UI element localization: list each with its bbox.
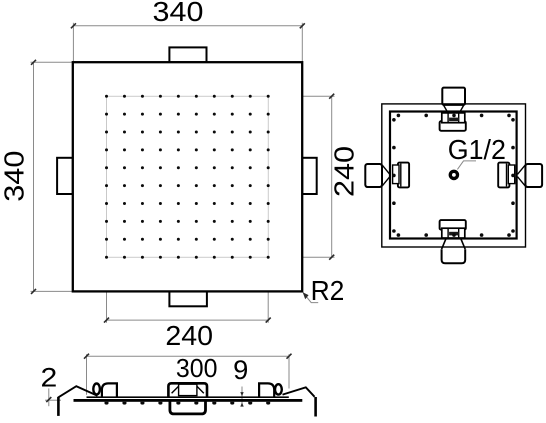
nozzle dots 10x10 xyxy=(105,95,270,259)
center clip xyxy=(168,383,207,397)
dim line 340 left xyxy=(33,62,35,291)
svg-text:9: 9 xyxy=(233,355,248,385)
left side clip xyxy=(102,383,117,396)
top bracket xyxy=(440,121,466,131)
dim 9 arrows xyxy=(240,392,243,396)
svg-text:300: 300 xyxy=(176,353,218,383)
extension line bottom-right xyxy=(267,257,269,323)
extension line left-bottom xyxy=(31,290,73,292)
extension line bottom-left xyxy=(106,257,108,323)
right funnel xyxy=(518,165,526,186)
svg-text:240: 240 xyxy=(165,320,213,351)
faceplate square xyxy=(73,62,302,291)
water inlet U xyxy=(170,401,206,414)
right flange slope xyxy=(283,387,315,397)
right side clip xyxy=(259,383,274,396)
right bracket xyxy=(498,163,509,188)
G1/2 inlet xyxy=(450,171,457,178)
dim line 240 right xyxy=(331,96,333,257)
svg-text:240: 240 xyxy=(328,146,359,197)
left clip roll xyxy=(93,384,100,395)
top tab xyxy=(169,47,206,62)
leader arrow R2 xyxy=(303,292,309,299)
leader G1/2 xyxy=(457,161,476,170)
svg-text:G1/2: G1/2 xyxy=(448,134,506,165)
right tab xyxy=(302,158,317,194)
bottom bracket xyxy=(440,220,466,230)
right clip roll xyxy=(275,384,282,394)
extension line top-right xyxy=(301,23,303,62)
left flange slope xyxy=(58,386,97,397)
screw dots ring xyxy=(392,114,515,237)
nozzle field border inside xyxy=(107,96,269,257)
svg-text:R2: R2 xyxy=(311,275,345,306)
right flange stub xyxy=(314,397,317,417)
left funnel xyxy=(382,165,390,186)
dim line 300 xyxy=(45,354,289,406)
trim plate xyxy=(87,396,289,398)
extension line top-left xyxy=(72,23,74,62)
extension line right-top xyxy=(268,95,334,97)
right clip body xyxy=(525,164,542,187)
bottom tab xyxy=(169,291,207,306)
bottom flask xyxy=(442,249,466,263)
svg-text:2: 2 xyxy=(41,363,58,393)
dim line 240 bottom xyxy=(107,319,269,321)
dim 9 line xyxy=(241,387,243,406)
top funnel xyxy=(443,105,464,112)
dim line 340 top xyxy=(73,25,302,27)
left clip body xyxy=(365,164,382,187)
face plate xyxy=(74,399,303,402)
nozzle bumps xyxy=(105,402,271,405)
back inner plate xyxy=(390,112,517,239)
extension line left-top xyxy=(31,61,73,63)
back outer plate xyxy=(382,104,526,247)
dimension ticks front view xyxy=(31,23,334,322)
svg-text:340: 340 xyxy=(153,0,204,27)
left bracket xyxy=(398,163,409,188)
left tab xyxy=(57,158,73,194)
dim 2 lines xyxy=(48,388,50,406)
top mounting tab xyxy=(442,88,465,105)
svg-text:340: 340 xyxy=(0,151,30,202)
bottom flask neck xyxy=(442,239,466,249)
leader R2 xyxy=(303,293,318,303)
left flange stub xyxy=(57,397,60,416)
extension line right-bottom xyxy=(268,256,334,258)
